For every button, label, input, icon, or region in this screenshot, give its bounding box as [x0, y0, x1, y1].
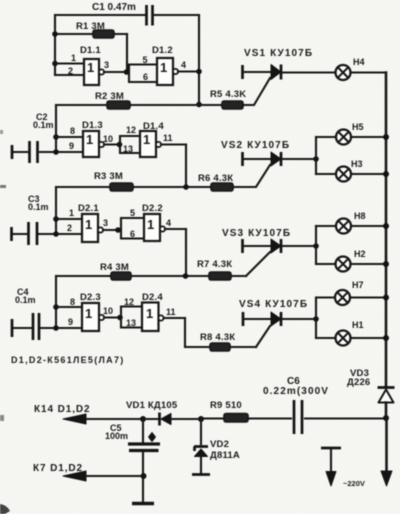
wire pin 4 to vertical	[165, 228, 186, 230]
node mid junction	[117, 142, 123, 148]
wire gate diagonal VS1	[243, 78, 270, 105]
svg-text:4: 4	[181, 60, 186, 70]
svg-text:VS1 КУ107Б: VS1 КУ107Б	[244, 48, 313, 59]
svg-text:D2.4: D2.4	[142, 292, 163, 303]
svg-text:1: 1	[85, 217, 92, 232]
wire pin 8	[56, 136, 83, 138]
thyristor VS2	[243, 152, 282, 166]
node junction rail-R1	[52, 31, 58, 37]
ground	[132, 502, 154, 506]
diode VD3	[378, 388, 395, 403]
wire C5 node to VD1	[143, 418, 158, 420]
diode VD1	[160, 413, 202, 426]
svg-text:D1,D2-К561ЛЕ5(ЛА7): D1,D2-К561ЛЕ5(ЛА7)	[11, 355, 125, 365]
wire pin 1	[55, 62, 84, 64]
svg-text:R8 4.3К: R8 4.3К	[200, 332, 235, 343]
svg-text:0.1m: 0.1m	[15, 295, 36, 305]
svg-text:R2 3M: R2 3M	[95, 91, 124, 102]
node junction rail-C4	[53, 325, 59, 331]
node rail-H5	[383, 134, 389, 140]
wire pin 2	[55, 74, 84, 76]
node input rail stage1	[54, 15, 56, 75]
svg-text:R6 4.3К: R6 4.3К	[198, 173, 233, 184]
svg-text:13: 13	[126, 318, 136, 328]
resistor R9	[201, 414, 291, 423]
wire C6 to rail	[305, 417, 386, 419]
node junction rail-pin1	[52, 61, 58, 67]
wire rail below VD3	[385, 403, 388, 473]
node junction rail-pin8	[53, 304, 59, 310]
node junction stage2out-bus	[183, 184, 189, 190]
wire gate diagonal VS3	[246, 252, 270, 276]
svg-text:R9 510: R9 510	[210, 400, 242, 411]
mains terminal T-bar	[321, 448, 341, 486]
svg-text:VD1 КД105: VD1 КД105	[126, 400, 178, 411]
svg-text:H7: H7	[352, 280, 364, 290]
svg-text:12: 12	[124, 297, 134, 307]
svg-text:1: 1	[85, 306, 92, 321]
svg-text:1: 1	[146, 306, 153, 321]
thyristor VS1	[243, 65, 282, 80]
wire input bracket D2.4	[121, 307, 142, 328]
K14 arrow	[63, 414, 86, 424]
svg-text:VS2 КУ107Б: VS2 КУ107Б	[221, 140, 290, 151]
svg-text:D2.2: D2.2	[142, 203, 163, 214]
svg-text:1: 1	[147, 217, 154, 232]
svg-text:D1.4: D1.4	[143, 121, 164, 132]
wire pin 8	[56, 306, 82, 308]
wire stage1 output vertical	[198, 15, 200, 105]
capacitor C5	[128, 444, 160, 451]
gate D1.4	[140, 131, 161, 157]
resistor R8	[210, 343, 230, 351]
svg-text:VS3 КУ107Б: VS3 КУ107Б	[222, 228, 291, 239]
svg-text:VD2: VD2	[210, 439, 229, 450]
node input rail stage2	[55, 105, 57, 152]
resistor R4	[111, 272, 131, 280]
wire to H8	[316, 225, 336, 227]
wire K14 to C5 node	[84, 418, 143, 420]
wire C1 to output vertical	[153, 14, 199, 16]
svg-text:11: 11	[163, 133, 173, 143]
node mid junction	[115, 227, 121, 233]
svg-text:D1.2: D1.2	[152, 45, 173, 56]
resistor R2	[107, 101, 130, 109]
svg-text:5: 5	[130, 208, 135, 218]
node input rail stage3	[55, 187, 57, 234]
svg-text:H2: H2	[354, 249, 366, 259]
svg-text:Д226: Д226	[347, 377, 370, 388]
node bracket junction	[313, 156, 319, 162]
gate D2.3	[82, 303, 104, 331]
resistor R1	[55, 30, 127, 38]
wire right rail upper	[385, 73, 388, 388]
K7 arrow	[63, 471, 86, 481]
lamp H3	[336, 167, 351, 182]
wire VS3 to lamp bracket	[281, 245, 316, 247]
svg-text:H4: H4	[353, 57, 365, 67]
wire to H7	[316, 296, 335, 298]
wire H4 to rail	[351, 71, 387, 73]
wire pin 9 / C4	[41, 327, 82, 329]
node pin4 junction	[196, 69, 202, 75]
svg-text:C1 0.47m: C1 0.47m	[92, 2, 136, 13]
svg-text:13: 13	[123, 144, 133, 154]
capacitor C6	[294, 400, 302, 434]
svg-text:H8: H8	[354, 211, 366, 221]
wire VD2 lead upper	[200, 419, 202, 444]
lamp H5	[336, 130, 351, 145]
svg-text:H3: H3	[351, 159, 363, 169]
wire H1 to rail	[351, 337, 387, 339]
svg-text:8: 8	[70, 297, 75, 307]
node output-bus junction	[196, 102, 202, 108]
svg-text:D1.1: D1.1	[80, 45, 101, 56]
wire to H5	[316, 136, 336, 138]
svg-text:1: 1	[69, 208, 74, 218]
svg-text:К7 D1,D2: К7 D1,D2	[33, 463, 83, 474]
wire gate diagonal VS4	[256, 326, 270, 347]
svg-text:R1 3M: R1 3M	[76, 21, 105, 32]
svg-text:6: 6	[130, 229, 135, 239]
node junction rail-pin8	[53, 134, 59, 140]
node K7 junction	[141, 473, 147, 479]
wire input bracket D1.2	[129, 65, 157, 83]
gate D2.1	[82, 214, 103, 242]
wire mid node	[104, 71, 129, 73]
svg-text:R5 4.3K: R5 4.3K	[210, 89, 246, 100]
wire H5 to rail	[351, 136, 386, 138]
svg-text:9: 9	[68, 317, 73, 327]
wire to H1	[316, 337, 336, 339]
svg-text:VS4 КУ107Б: VS4 КУ107Б	[239, 299, 308, 310]
svg-text:К14 D1,D2: К14 D1,D2	[34, 404, 90, 415]
zener diode VD2	[192, 447, 210, 475]
wire K7 to C5 lead	[84, 475, 143, 477]
wire VS2 to lamp bracket	[281, 158, 316, 160]
C5 polarity mark	[149, 433, 156, 442]
wire pin 9 / C2	[40, 151, 83, 153]
lamp H8	[336, 219, 351, 234]
node rail-H7	[383, 295, 389, 301]
svg-text:0.22m(300V: 0.22m(300V	[263, 386, 329, 397]
node VD2 junction	[198, 416, 204, 422]
svg-text:1: 1	[71, 53, 76, 63]
wire bus row3	[56, 275, 246, 277]
svg-text:11: 11	[166, 307, 176, 317]
capacitor C4	[12, 313, 39, 340]
svg-text:D1.3: D1.3	[82, 120, 103, 131]
svg-text:10: 10	[103, 134, 113, 144]
wire mid node stage3	[103, 229, 121, 231]
svg-text:0.1m: 0.1m	[33, 120, 54, 130]
wire stage4 output vertical	[184, 318, 186, 347]
node rail-H2	[383, 261, 389, 267]
wire gate diagonal VS2	[246, 165, 270, 187]
resistor R6	[211, 183, 233, 191]
mains arrow right rail	[381, 471, 392, 486]
svg-text:2: 2	[68, 66, 73, 76]
wire H2 to rail	[351, 263, 387, 265]
wire VS1 to H4	[281, 71, 336, 73]
node junction rail-C3	[53, 231, 59, 237]
gate D1.2	[157, 58, 178, 85]
wire lamp bracket H8/H2	[315, 226, 317, 264]
gate D2.2	[144, 214, 165, 241]
node rail-H8	[383, 223, 389, 229]
wire input bracket D2.2	[121, 218, 144, 239]
svg-text:1: 1	[143, 132, 150, 147]
wire to H3	[316, 173, 336, 175]
svg-text:R3 3M: R3 3M	[94, 171, 123, 182]
wire top to C1	[55, 14, 146, 16]
wire C5 bottom lead	[142, 452, 144, 502]
wire pin 11 to vertical	[164, 317, 186, 319]
svg-text:3: 3	[104, 60, 109, 70]
node junction rail-C2	[53, 149, 59, 155]
node junction stage3out-bus	[183, 273, 189, 279]
wire H8 to rail	[351, 225, 386, 227]
wire pin 2 / C3	[39, 233, 82, 235]
scan noise marks	[0, 130, 10, 514]
svg-text:6: 6	[143, 72, 148, 82]
wire C5 top lead	[142, 419, 144, 443]
wire stage3 output vertical	[185, 229, 187, 276]
wire H3 to rail	[351, 173, 386, 175]
resistor R3	[110, 183, 133, 191]
wire to H2	[316, 263, 336, 265]
svg-text:H5: H5	[352, 122, 364, 132]
node bracket junction	[313, 316, 319, 322]
node mid junction dot	[124, 69, 130, 75]
svg-text:1: 1	[87, 60, 94, 75]
wire stage2 output vertical	[185, 145, 187, 188]
svg-text:12: 12	[126, 125, 136, 135]
lamp H2	[336, 257, 351, 272]
svg-text:10: 10	[103, 306, 113, 316]
node rail-C6 junction	[383, 415, 389, 421]
wire R1 to mid node	[126, 34, 128, 72]
svg-text:~220V: ~220V	[343, 479, 365, 488]
gate D1.1	[84, 59, 104, 85]
svg-text:D2.1: D2.1	[78, 203, 99, 214]
svg-text:D2.3: D2.3	[80, 292, 101, 303]
node rail-H3	[383, 171, 389, 177]
lamp H7	[335, 290, 350, 305]
svg-text:2: 2	[67, 223, 72, 233]
wire input bracket D1.4	[120, 136, 140, 153]
wire mid node stage4	[104, 316, 120, 318]
node bracket junction	[313, 243, 319, 249]
wire VS4 to lamp bracket	[281, 318, 316, 320]
gate D1.3	[83, 131, 104, 157]
svg-text:Д811А: Д811А	[210, 450, 240, 461]
wire pin 4 to vertical	[178, 70, 199, 72]
node mid junction	[117, 315, 123, 321]
wire bus row1	[56, 104, 243, 106]
wire H7 to rail	[350, 296, 386, 298]
svg-text:3: 3	[103, 218, 108, 228]
capacitor C1	[147, 5, 153, 26]
gate D2.4	[142, 303, 164, 332]
capacitor C2	[12, 141, 38, 163]
svg-text:1: 1	[86, 132, 93, 147]
svg-text:100m: 100m	[105, 431, 128, 441]
node C5 top junction	[140, 416, 146, 422]
wire bus row4	[185, 346, 256, 348]
svg-text:R4 3M: R4 3M	[100, 262, 129, 273]
node rail-H1	[383, 335, 389, 341]
wire bus row2	[56, 186, 246, 188]
wire lamp bracket H5/H3	[315, 137, 317, 174]
wire pin 1	[56, 218, 82, 220]
node junction rail-pin1	[53, 216, 59, 222]
svg-text:8: 8	[70, 126, 75, 136]
lamp H4	[336, 65, 351, 80]
resistor R7	[209, 272, 231, 280]
svg-text:0.1m: 0.1m	[28, 202, 49, 212]
node input rail stage4	[55, 276, 57, 328]
lamp H1	[336, 331, 351, 346]
svg-text:9: 9	[69, 141, 74, 151]
svg-text:1: 1	[160, 60, 167, 75]
wire mid node stage2	[104, 143, 120, 145]
svg-text:H1: H1	[352, 320, 364, 330]
svg-text:5: 5	[143, 55, 148, 65]
capacitor C3	[12, 222, 38, 245]
thyristor VS3	[243, 239, 282, 253]
wire pin 11 to vertical	[161, 143, 186, 145]
resistor R5	[222, 101, 243, 109]
thyristor VS4	[243, 312, 281, 326]
svg-text:4: 4	[166, 218, 171, 228]
wire lamp bracket H7/H1	[315, 298, 317, 339]
svg-text:R7 4.3К: R7 4.3К	[197, 259, 232, 270]
